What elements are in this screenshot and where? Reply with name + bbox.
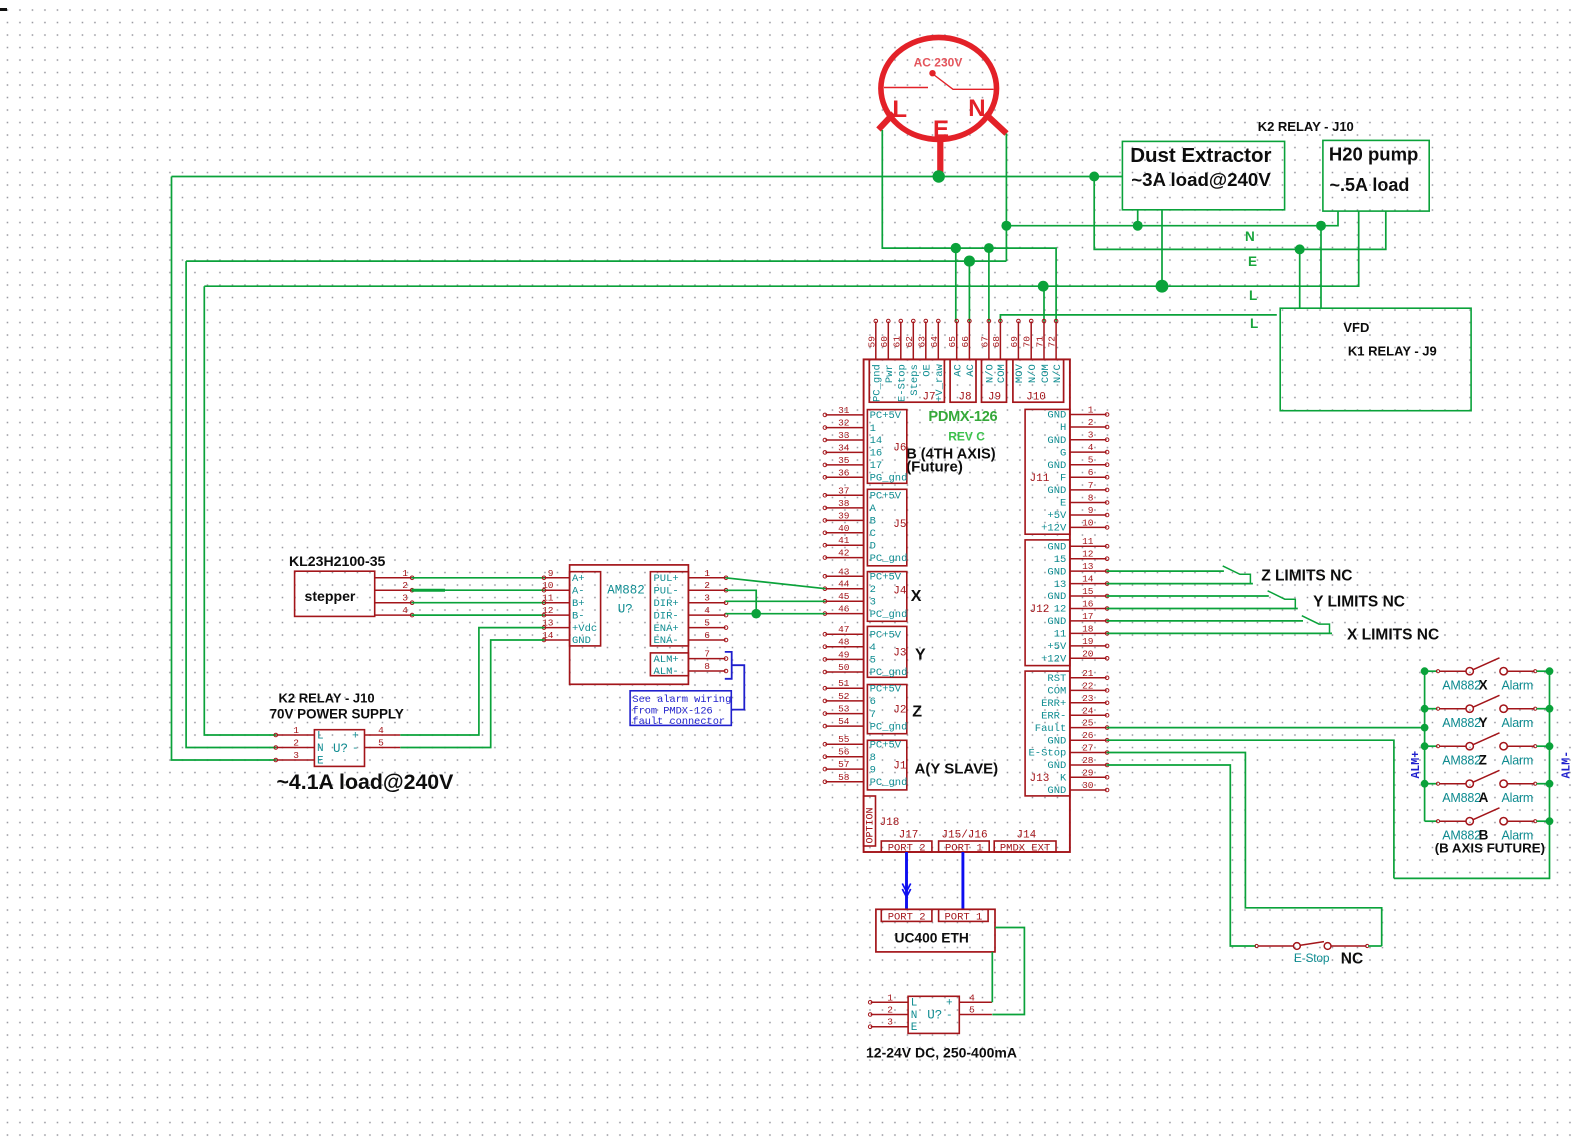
svg-text:65: 65 (947, 336, 958, 348)
wire PDMX Fault pin 25 to ALM+ bus (1107, 727, 1425, 729)
svg-text:49: 49 (838, 649, 850, 660)
svg-text:+: + (352, 730, 359, 742)
svg-text:GND: GND (1047, 460, 1066, 472)
wire limit bottom (X LIMITS NC) (1107, 632, 1332, 634)
svg-text:KL23H2100-35: KL23H2100-35 (289, 553, 386, 569)
pin 7 (GND) of J11 (1070, 489, 1107, 491)
pin 14 (GND) of AM882 (545, 639, 570, 641)
wire PDMX E-Stop pin 27 loop (1107, 753, 1382, 947)
svg-text:3: 3 (870, 596, 876, 608)
svg-text:PG_gnd: PG_gnd (870, 473, 908, 485)
svg-text:57: 57 (838, 759, 849, 770)
svg-text:AC: AC (965, 364, 977, 377)
connector J11 box (1025, 409, 1070, 534)
wire AM882 DIR+ to PDMX pin 45 (726, 600, 826, 602)
svg-text:50: 50 (838, 662, 850, 673)
svg-text:PC_gnd: PC_gnd (872, 364, 884, 402)
svg-text:Y: Y (1479, 715, 1488, 730)
svg-text:PC+5V: PC+5V (870, 739, 902, 751)
pin 13 (+Vdc) of AM882 (545, 627, 570, 629)
pin 64 (+V_raw) of J7 (937, 322, 939, 360)
svg-text:A(Y SLAVE): A(Y SLAVE) (915, 761, 999, 778)
svg-text:RST: RST (1047, 673, 1066, 685)
svg-text:5: 5 (378, 738, 384, 749)
svg-text:OE: OE (922, 364, 934, 377)
pin 34 (16) of J6 (825, 451, 863, 453)
junction L to J9 pin 67 (984, 243, 994, 253)
pin 31 (PC+5V) of J6 (825, 414, 863, 416)
pin 5 (-) of DC supply (959, 1014, 992, 1016)
svg-text:X: X (911, 588, 922, 605)
pin 59 (PC_gnd) of J7 (875, 322, 877, 360)
svg-text:1: 1 (704, 568, 710, 579)
svg-text:+: + (946, 998, 953, 1010)
svg-text:+Vdc: +Vdc (572, 623, 597, 635)
svg-text:14: 14 (870, 435, 883, 447)
connector J14 PMDX EXT box (994, 841, 1056, 852)
svg-text:L: L (1250, 316, 1258, 331)
pin 70 (N/O) of J10 (1030, 322, 1032, 360)
wire PORT1 data (blue) (961, 852, 964, 909)
svg-text:GND: GND (1047, 410, 1066, 422)
svg-text:K2 RELAY - J10: K2 RELAY - J10 (279, 691, 375, 706)
70V power supply U4 box (314, 730, 364, 767)
pin 9 (A+) of AM882 (545, 577, 570, 579)
pin 72 (N/C) of J10 (1055, 322, 1057, 360)
pin 71 (COM) of J10 (1043, 322, 1045, 360)
svg-text:E: E (911, 1022, 918, 1034)
junction N to VFD (1316, 221, 1326, 231)
svg-text:48: 48 (838, 637, 850, 648)
AC mains source P1 (879, 37, 1007, 177)
switch E-Stop NC (1255, 944, 1258, 947)
pin 49 (5) of J3 (825, 658, 863, 660)
UC400 ETH controller U5 box (876, 909, 995, 952)
note box: see alarm wiring (630, 691, 731, 726)
wire L net from AC line to relay contacts (882, 130, 1056, 322)
svg-text:14: 14 (1082, 574, 1094, 585)
wire 70V supply + to AM882 +Vdc (400, 628, 544, 735)
svg-text:17: 17 (870, 460, 883, 472)
svg-text:J5: J5 (893, 519, 906, 531)
pin 11 (GND) of J12 (1070, 545, 1107, 547)
svg-text:J15/J16: J15/J16 (941, 830, 987, 842)
svg-text:46: 46 (838, 604, 850, 615)
pin 63 (OE) of J7 (925, 322, 927, 360)
svg-text:~.5A load: ~.5A load (1330, 175, 1410, 195)
svg-text:69: 69 (1009, 336, 1020, 348)
svg-text:15: 15 (1082, 586, 1094, 597)
12-24V DC supply U6 box (908, 996, 959, 1033)
stepper motor M1 box (295, 571, 375, 616)
svg-text:PC+5V: PC+5V (870, 491, 902, 503)
svg-text:30: 30 (1082, 780, 1094, 791)
svg-text:12: 12 (1054, 604, 1067, 616)
wire AM882 PUL- / DIR- to PDMX pin 46 PC_gnd (726, 590, 757, 613)
switch Y LIMITS NC (1268, 591, 1296, 609)
svg-text:5: 5 (969, 1005, 975, 1016)
svg-text:4: 4 (402, 605, 408, 616)
pin 61 (E-Stop) of J7 (900, 322, 902, 360)
pin 3 (E) of DC supply (871, 1026, 908, 1028)
svg-text:ERR-: ERR- (1041, 711, 1066, 723)
svg-text:9: 9 (548, 568, 554, 579)
svg-text:13: 13 (1082, 561, 1094, 572)
svg-text:4: 4 (704, 605, 710, 616)
svg-text:DIR-: DIR- (654, 610, 679, 622)
svg-text:~3A load@240V: ~3A load@240V (1131, 169, 1271, 190)
pin 4 (G) of J11 (1070, 451, 1107, 453)
svg-text:E: E (317, 755, 324, 767)
svg-text:4: 4 (870, 642, 876, 654)
connector J7 box (869, 359, 944, 402)
svg-text:J6: J6 (893, 443, 906, 455)
pin 18 (11) of J12 (1070, 632, 1107, 634)
svg-text:GND: GND (572, 635, 591, 647)
svg-text:6: 6 (870, 696, 876, 708)
pin 65 (AC) of J8 (956, 322, 958, 360)
svg-text:(B AXIS FUTURE): (B AXIS FUTURE) (1435, 841, 1545, 856)
pin 10 (A-) of AM882 (545, 589, 570, 591)
junction E to VFD (1295, 244, 1305, 254)
pin 35 (17) of J6 (825, 464, 863, 466)
svg-text:J9: J9 (988, 392, 1001, 404)
svg-text:37: 37 (838, 485, 849, 496)
svg-text:N/O: N/O (985, 364, 997, 383)
svg-text:61: 61 (891, 336, 902, 348)
svg-text:UC400 ETH: UC400 ETH (895, 931, 969, 946)
svg-text:A+: A+ (572, 573, 585, 585)
alarm note bracket (blue) (725, 652, 745, 710)
pin 4 (DIR-) of AM882 (688, 614, 725, 616)
svg-text:X: X (1479, 677, 1488, 692)
stray mark top-left (0, 8, 7, 11)
pin 28 (GND) of J13 (1070, 764, 1107, 766)
svg-text:7: 7 (870, 709, 876, 721)
svg-text:Fault: Fault (1035, 723, 1067, 735)
svg-text:34: 34 (838, 442, 850, 453)
svg-text:PC+5V: PC+5V (870, 683, 902, 695)
svg-text:5: 5 (704, 618, 710, 629)
junction L1 to dust extractor (1156, 280, 1169, 293)
pin 46 (PC_gnd) of J4 (825, 613, 863, 615)
svg-text:AC: AC (953, 364, 965, 377)
wire stepper phase B+ to AM882 (412, 602, 545, 604)
svg-text:ALM-: ALM- (1561, 751, 1574, 779)
svg-text:38: 38 (838, 498, 850, 509)
pin 1 (PUL+) of AM882 (688, 577, 725, 579)
svg-text:55: 55 (838, 734, 850, 745)
pin 53 (7) of J2 (825, 713, 863, 715)
svg-text:11: 11 (1054, 629, 1067, 641)
PDMX-126 breakout board U2 body (864, 359, 1070, 852)
connector J6 box (867, 410, 906, 484)
pin 16 (12) of J12 (1070, 608, 1107, 610)
svg-text:Alarm: Alarm (1502, 716, 1534, 730)
pin 50 (PC_gnd) of J3 (825, 671, 863, 673)
svg-text:3: 3 (402, 593, 408, 604)
svg-text:24: 24 (1082, 705, 1094, 716)
svg-text:PUL-: PUL- (654, 586, 679, 598)
pin 15 (GND) of J12 (1070, 595, 1107, 597)
stepper driver AM882 U3 body (570, 565, 689, 684)
pin 29 (K) of J13 (1070, 776, 1107, 778)
svg-text:2: 2 (1088, 417, 1094, 428)
svg-text:9: 9 (870, 764, 876, 776)
pin 5 (GND) of J11 (1070, 464, 1107, 466)
svg-text:B-: B- (572, 610, 585, 622)
pin 33 (14) of J6 (825, 439, 863, 441)
pin 40 (C) of J5 (825, 532, 863, 534)
pin 27 (E-Stop) of J13 (1070, 752, 1107, 754)
pin 2 (N) of 70V supply (276, 747, 314, 749)
svg-text:2: 2 (402, 580, 408, 591)
pin 21 (RST) of J13 (1070, 677, 1107, 679)
svg-text:PUL+: PUL+ (654, 573, 679, 585)
svg-text:7: 7 (704, 649, 710, 660)
wire limit bottom (Z LIMITS NC) (1107, 583, 1253, 585)
AM882 right pin block (650, 572, 688, 646)
svg-text:45: 45 (838, 591, 850, 602)
connector J3 box (867, 626, 906, 677)
connector J1 box (867, 740, 906, 790)
svg-text:H20 pump: H20 pump (1329, 144, 1418, 165)
junction ALM+ feed (1421, 724, 1429, 732)
connector J15/J16 PORT 1 box (939, 841, 990, 852)
pin 20 (+12V) of J12 (1070, 657, 1107, 659)
svg-text:12: 12 (542, 605, 554, 616)
svg-text:PC+5V: PC+5V (870, 572, 902, 584)
switch Z LIMITS NC (1223, 566, 1251, 584)
pin 8 (E) of J11 (1070, 502, 1107, 504)
svg-text:COM: COM (1047, 686, 1066, 698)
svg-text:(Future): (Future) (906, 459, 963, 476)
pin 25 (Fault) of J13 (1070, 727, 1107, 729)
svg-text:L: L (317, 730, 324, 742)
pin 4 (+) of DC supply (959, 1001, 992, 1003)
svg-text:A: A (870, 503, 877, 515)
switch AM882 Z Alarm (1425, 745, 1438, 747)
svg-text:DIR+: DIR+ (654, 598, 679, 610)
svg-text:PORT 2: PORT 2 (888, 911, 926, 923)
AM882 alarm pin block (650, 653, 688, 676)
junction N to J8 pin 66 (964, 256, 975, 267)
wire 70V supply - to AM882 GND (400, 640, 544, 748)
pin 45 (3) of J4 (825, 600, 863, 602)
VFD box (K1 relay load) (1280, 308, 1471, 411)
svg-text:REV C: REV C (948, 430, 985, 444)
svg-text:B+: B+ (572, 598, 585, 610)
svg-text:fault connector: fault connector (632, 716, 725, 728)
svg-text:52: 52 (838, 691, 850, 702)
connector J18 OPTION box (864, 796, 876, 846)
svg-text:29: 29 (1082, 767, 1094, 778)
svg-text:13: 13 (1054, 579, 1067, 591)
connector J10 box (1013, 359, 1064, 402)
junction N to dust extractor (1133, 221, 1143, 231)
svg-text:67: 67 (979, 336, 990, 347)
svg-text:G: G (1060, 447, 1066, 459)
pin 55 (PC+5V) of J1 (825, 743, 863, 745)
svg-text:1: 1 (402, 568, 408, 579)
pin 47 (PC+5V) of J3 (825, 633, 863, 635)
svg-text:41: 41 (838, 535, 850, 546)
pin 12 (15) of J12 (1070, 558, 1107, 560)
svg-text:12: 12 (1082, 549, 1094, 560)
pin 57 (9) of J1 (825, 768, 863, 770)
svg-text:2: 2 (887, 1005, 893, 1016)
wire stepper phase A+ to AM882 (412, 577, 545, 579)
connector J5 box (867, 489, 906, 566)
svg-text:62: 62 (904, 336, 915, 348)
svg-text:ALM+: ALM+ (1410, 751, 1423, 779)
svg-text:GND: GND (1047, 541, 1066, 553)
svg-text:16: 16 (1082, 599, 1094, 610)
wire E net: AC earth bus (172, 176, 1123, 178)
svg-text:J18: J18 (880, 817, 900, 829)
svg-text:36: 36 (838, 467, 850, 478)
svg-text:B: B (870, 516, 876, 528)
connector J8 box (950, 359, 976, 402)
svg-text:35: 35 (838, 455, 850, 466)
wire limit bottom (Y LIMITS NC) (1107, 608, 1298, 610)
junction N bus start (1001, 221, 1011, 231)
pin 4 (+) of 70V supply (365, 734, 401, 736)
svg-text:3: 3 (887, 1017, 893, 1028)
svg-text:51: 51 (838, 678, 850, 689)
wire AM882 PUL+ to PDMX pin 44 (726, 578, 826, 589)
svg-text:15: 15 (1054, 554, 1067, 566)
pin 10 (+12V) of J11 (1070, 526, 1107, 528)
pin 1 (L) of DC supply (871, 1001, 908, 1003)
wire limit top (Z LIMITS NC) (1107, 570, 1224, 572)
pin 8 (ALM-) of AM882 (688, 670, 725, 672)
svg-text:J10: J10 (1026, 392, 1046, 404)
svg-text:10: 10 (542, 580, 554, 591)
svg-text:25: 25 (1082, 718, 1094, 729)
svg-text:2: 2 (293, 738, 299, 749)
pin 54 (PC_gnd) of J2 (825, 725, 863, 727)
svg-text:26: 26 (1082, 730, 1094, 741)
H20 pump load box (1323, 140, 1429, 211)
pin 37 (PC+5V) of J5 (825, 494, 863, 496)
svg-text:8: 8 (704, 661, 710, 672)
svg-text:COM: COM (1040, 364, 1052, 383)
svg-text:L: L (892, 96, 907, 123)
svg-text:F: F (1060, 472, 1066, 484)
svg-text:N: N (1245, 229, 1255, 244)
connector J9 box (982, 359, 1007, 402)
pin 9 (+5V) of J11 (1070, 514, 1107, 516)
pin 62 (Steps) of J7 (912, 322, 914, 360)
svg-text:72: 72 (1047, 336, 1058, 348)
svg-text:J13: J13 (1030, 773, 1050, 785)
pin 69 (MOV) of J10 (1017, 322, 1019, 360)
svg-text:4: 4 (378, 725, 384, 736)
svg-text:Y LIMITS NC: Y LIMITS NC (1313, 594, 1405, 611)
svg-text:1: 1 (293, 725, 299, 736)
svg-text:Pwr: Pwr (884, 364, 896, 383)
svg-text:40: 40 (838, 523, 850, 534)
svg-text:28: 28 (1082, 755, 1094, 766)
svg-text:3: 3 (704, 593, 710, 604)
pin 67 (N/O) of J9 (988, 322, 990, 360)
svg-text:J1: J1 (893, 761, 907, 773)
wire limit top (X LIMITS NC) (1107, 620, 1303, 622)
svg-text:+5V: +5V (1047, 510, 1067, 522)
pin 66 (AC) of J8 (968, 322, 970, 360)
svg-text:GND: GND (1047, 435, 1066, 447)
svg-text:J8: J8 (958, 392, 971, 404)
svg-text:E-Stop: E-Stop (1294, 951, 1330, 965)
svg-text:U?: U? (927, 1009, 942, 1023)
svg-text:56: 56 (838, 747, 850, 758)
wire limit top (Y LIMITS NC) (1107, 595, 1269, 597)
svg-text:1: 1 (870, 423, 876, 435)
svg-text:3: 3 (1088, 430, 1094, 441)
wire E-stop right stub (1368, 945, 1381, 947)
svg-text:N: N (911, 1010, 918, 1022)
svg-text:L: L (1249, 288, 1257, 303)
connector J12 box (1025, 540, 1070, 666)
svg-text:See alarm wiring: See alarm wiring (632, 694, 731, 706)
svg-text:K2 RELAY - J10: K2 RELAY - J10 (1258, 119, 1354, 134)
pin 2 (H) of J11 (1070, 426, 1107, 428)
svg-text:J3: J3 (893, 648, 906, 660)
pin 1 (GND) of J11 (1070, 414, 1107, 416)
svg-text:~4.1A load@240V: ~4.1A load@240V (277, 770, 455, 794)
svg-text:+12V: +12V (1041, 654, 1067, 666)
svg-text:Alarm: Alarm (1502, 753, 1534, 767)
pin 51 (PC+5V) of J2 (825, 687, 863, 689)
svg-text:63: 63 (916, 336, 927, 348)
svg-text:PC_gnd: PC_gnd (870, 777, 908, 789)
junction PUL-/DIR- common (751, 609, 761, 619)
svg-text:H: H (1060, 422, 1066, 434)
wire L1 net: switched line bus to loads (204, 211, 1358, 286)
connector J4 box (867, 572, 906, 622)
svg-text:E: E (1248, 254, 1257, 269)
svg-text:PC_gnd: PC_gnd (870, 667, 908, 679)
wire ALM- bus (right) (1394, 671, 1550, 878)
svg-text:COM: COM (996, 364, 1008, 383)
pin 26 (GND) of J13 (1070, 739, 1107, 741)
pin 5 (-) of 70V supply (365, 747, 401, 749)
svg-text:12-24V DC, 250-400mA: 12-24V DC, 250-400mA (866, 1045, 1017, 1061)
svg-text:J17: J17 (899, 830, 919, 842)
svg-text:+V_raw: +V_raw (934, 364, 946, 403)
svg-text:E-Stop: E-Stop (1028, 748, 1066, 760)
svg-text:E: E (933, 116, 949, 143)
switch AM882 X Alarm (1425, 670, 1438, 672)
pin 5 (ENA+) of AM882 (688, 627, 725, 629)
svg-text:66: 66 (960, 336, 971, 348)
pin 1 (L) of 70V supply (276, 734, 314, 736)
svg-text:18: 18 (1082, 623, 1094, 634)
svg-text:PC_gnd: PC_gnd (870, 721, 908, 733)
connector J17 PORT 2 box (881, 841, 932, 852)
pin 24 (ERR-) of J13 (1070, 714, 1107, 716)
wire PDMX GND pin 26 to ALM- bus (1107, 740, 1394, 878)
pin 68 (COM) of J9 (999, 322, 1001, 360)
svg-text:J4: J4 (893, 586, 907, 598)
svg-text:K1 RELAY - J9: K1 RELAY - J9 (1348, 344, 1437, 359)
svg-text:22: 22 (1082, 680, 1094, 691)
svg-text:23: 23 (1082, 693, 1094, 704)
svg-text:60: 60 (879, 336, 890, 348)
pin 11 (B+) of AM882 (545, 602, 570, 604)
pin 48 (4) of J3 (825, 646, 863, 648)
